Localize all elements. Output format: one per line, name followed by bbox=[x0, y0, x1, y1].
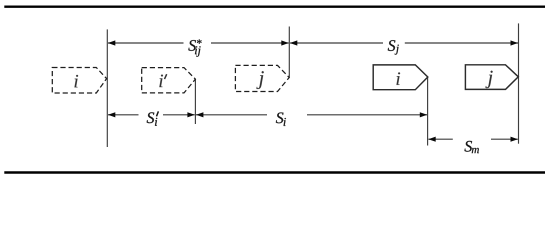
dimension S'_i (between V1 and V3) bbox=[108, 111, 195, 125]
extension line V1 (left boundary, under dashed i tip) bbox=[106, 29, 108, 147]
extension line V2 (junction of S*_ij and S_j, at dashed j tip) bbox=[288, 27, 290, 78]
top rule bbox=[4, 5, 545, 7]
solid task tag j bbox=[465, 65, 518, 90]
dimension S_j (between V2 and V5) bbox=[290, 40, 518, 54]
dimension S*_ij (between V1 and V2) bbox=[108, 39, 289, 56]
dimension S_i (between V3 and V4) bbox=[196, 112, 427, 126]
dashed task tag i' bbox=[142, 68, 196, 93]
dashed task tag j bbox=[235, 65, 289, 91]
extension line V3 (descends from dashed i' tip) bbox=[194, 79, 196, 124]
dashed task tag i bbox=[52, 68, 106, 94]
extension line V5 (right boundary, at solid j tip) bbox=[518, 23, 520, 143]
bottom rule bbox=[4, 171, 545, 173]
dimension S_m (between V4 and V5) bbox=[428, 137, 518, 154]
solid task tag i bbox=[373, 65, 428, 90]
extension line V4 (descends from solid i tip) bbox=[427, 78, 429, 146]
